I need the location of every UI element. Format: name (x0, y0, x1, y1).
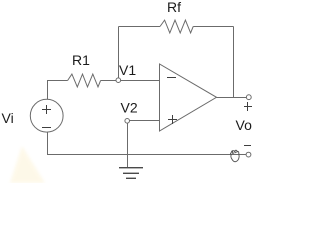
output plus sign (244, 102, 252, 111)
source minus sign (42, 127, 51, 128)
op-amp U1 (160, 64, 217, 131)
watermark triangle (10, 146, 45, 183)
op-amp minus sign (167, 77, 176, 78)
hand cursor (230, 150, 239, 162)
wire: source bottom stub and bottom rail to - terminal (48, 132, 247, 154)
resistor Rf (160, 20, 193, 33)
svg-text:Vo: Vo (236, 117, 253, 133)
wire: node V1 up to feedback (118, 27, 120, 79)
wire: source top stub to R1 (48, 81, 68, 100)
wire: feedback top left segment (119, 26, 161, 28)
node V2 (125, 119, 130, 124)
wire: node V2 to op-amp non-inverting input (129, 120, 159, 122)
svg-text:Vi: Vi (2, 110, 14, 126)
svg-text:V1: V1 (119, 62, 136, 78)
voltage source Vi (30, 99, 63, 132)
svg-text:V2: V2 (121, 100, 138, 116)
source plus sign (42, 109, 51, 110)
svg-text:R1: R1 (72, 52, 90, 68)
wire: R1 to node V1 (101, 80, 117, 82)
wire: op-amp output to + terminal (217, 97, 247, 99)
output minus sign (244, 145, 251, 146)
wire: node V2 down to ground (127, 123, 129, 168)
output - terminal (246, 152, 251, 157)
wire: Rf to right corner (193, 26, 233, 28)
output + terminal (246, 95, 251, 100)
svg-text:Rf: Rf (167, 0, 181, 15)
ground (119, 167, 143, 179)
resistor R1 (68, 74, 101, 87)
wire: feedback down segment (233, 27, 235, 98)
node V1 (116, 78, 121, 83)
wire: node V1 to op-amp inverting input (121, 80, 160, 82)
op-amp plus sign (168, 115, 177, 124)
